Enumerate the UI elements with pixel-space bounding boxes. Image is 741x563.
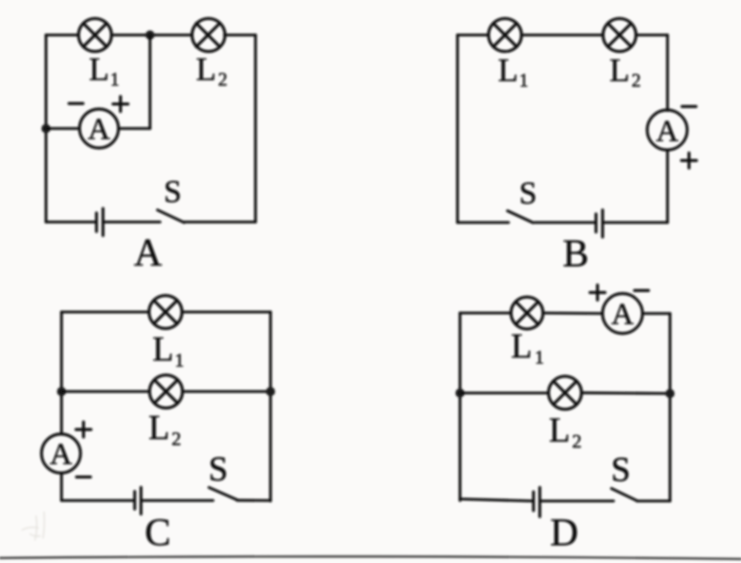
svg-text:L1: L1 — [511, 328, 544, 369]
wire circuit D left side — [459, 313, 462, 501]
svg-text:A: A — [50, 436, 73, 471]
lamp L2 (circuit A) — [192, 19, 225, 52]
wire circuit A top right segment — [225, 34, 256, 37]
switch S lever (circuit A) — [158, 210, 185, 223]
wire circuit D top left segment — [460, 312, 511, 315]
wire circuit A top left segment — [46, 34, 79, 37]
wire circuit C left lower — [60, 473, 63, 501]
wire circuit A top middle segment — [112, 34, 192, 37]
lamp L2 (circuit B) — [603, 19, 636, 52]
battery (circuit C) — [135, 487, 141, 514]
wire circuit D top right segment — [643, 312, 671, 315]
plus polarity mark (circuit A ammeter) — [113, 97, 128, 112]
ammeter A1 (circuit D) — [603, 294, 643, 334]
svg-text:S: S — [164, 173, 182, 209]
wire switch to corner (circuit C) — [237, 499, 271, 502]
wire ammeter to riser (circuit A) — [119, 127, 151, 130]
wire circuit A bottom left segment — [46, 221, 96, 224]
svg-text:A: A — [656, 113, 679, 148]
wire circuit C right side — [269, 312, 272, 501]
svg-text:A: A — [88, 111, 111, 146]
svg-text:L2: L2 — [149, 409, 182, 450]
wire circuit B left side — [456, 35, 459, 223]
wire circuit C top left segment — [62, 311, 150, 314]
lamp L1 (circuit A) — [79, 19, 112, 52]
wire battery to corner (circuit B) — [603, 221, 668, 224]
minus polarity mark (circuit D ammeter) — [635, 289, 649, 292]
svg-text:L1: L1 — [498, 53, 528, 92]
switch S lever (circuit B) — [508, 211, 534, 223]
lamp L1 (circuit D) — [511, 297, 543, 329]
node junction left (circuit A) — [41, 124, 50, 133]
battery (circuit B) — [596, 210, 603, 237]
faint pencil artifact bottom-left — [22, 512, 44, 540]
horizontal rule at page bottom — [0, 556, 741, 559]
wire circuit B bottom left segment — [458, 221, 509, 224]
minus polarity mark (circuit B ammeter) — [682, 105, 696, 108]
wire battery to switch (circuit D) — [540, 500, 614, 503]
node junction mid-left (circuit C) — [57, 387, 66, 396]
wire circuit C bottom left segment — [62, 499, 135, 502]
lamp L2 (circuit D) — [549, 376, 582, 409]
svg-text:L2: L2 — [196, 52, 227, 91]
wire battery to switch (circuit C) — [142, 499, 214, 502]
wire switch to corner (circuit A) — [184, 221, 256, 224]
svg-text:L1: L1 — [153, 331, 185, 372]
svg-text:S: S — [208, 450, 227, 489]
wire riser to top node (circuit A) — [149, 35, 152, 129]
plus polarity mark (circuit B ammeter) — [682, 153, 697, 168]
lamp L1 (circuit B) — [489, 19, 522, 52]
wire circuit C top right segment — [182, 311, 271, 314]
wire lamp to ammeter (circuit D) — [543, 312, 603, 315]
wire circuit C middle left segment — [62, 390, 150, 393]
wire circuit A right side — [254, 35, 257, 222]
svg-text:L1: L1 — [89, 52, 119, 91]
minus polarity mark (circuit C ammeter) — [77, 476, 91, 479]
wire circuit B right upper — [666, 35, 669, 111]
plus polarity mark (circuit D ammeter) — [590, 285, 605, 300]
svg-text:L2: L2 — [610, 53, 641, 92]
wire circuit D right side — [669, 314, 672, 502]
plus polarity mark (circuit C ammeter) — [76, 422, 91, 437]
wire switch to corner (circuit D) — [637, 500, 670, 503]
svg-text:L2: L2 — [549, 412, 582, 453]
svg-text:B: B — [563, 232, 589, 275]
lamp L2 (circuit C) — [150, 375, 183, 408]
wire circuit D bottom left segment — [460, 499, 533, 501]
wire circuit B top middle segment — [522, 34, 604, 37]
wire circuit D middle left segment — [460, 392, 549, 395]
svg-text:D: D — [550, 511, 578, 554]
svg-text:A: A — [134, 231, 162, 274]
svg-text:C: C — [145, 511, 171, 554]
node junction mid-left (circuit D) — [455, 388, 464, 397]
switch S lever (circuit D) — [612, 489, 638, 501]
battery (circuit D) — [534, 487, 540, 516]
wire circuit B top right segment — [636, 34, 668, 37]
battery (circuit A) — [97, 209, 104, 236]
wire switch to battery (circuit B) — [535, 221, 596, 224]
node junction mid-right (circuit C) — [266, 387, 275, 396]
wire circuit C left upper — [60, 312, 63, 434]
node junction top (circuit A) — [145, 30, 154, 39]
wire circuit C middle right segment — [183, 390, 271, 393]
ammeter A1 (circuit A) — [80, 109, 119, 148]
node junction mid-right (circuit D) — [665, 389, 674, 398]
svg-text:S: S — [519, 175, 537, 211]
ammeter A1 (circuit B) — [647, 110, 687, 150]
minus polarity mark (circuit A ammeter) — [69, 102, 83, 105]
svg-text:A: A — [611, 296, 634, 331]
svg-text:S: S — [611, 450, 630, 489]
switch S lever (circuit C) — [209, 488, 237, 500]
wire circuit A left side — [45, 35, 48, 222]
wire circuit D middle right segment — [582, 391, 671, 395]
lamp L1 (circuit C) — [149, 296, 182, 329]
wire battery to switch (circuit A) — [103, 221, 160, 224]
wire node to ammeter (circuit A) — [46, 127, 80, 130]
ammeter A1 (circuit C) — [42, 434, 81, 473]
wire circuit B top left segment — [458, 34, 489, 37]
wire circuit B right lower — [666, 150, 669, 223]
